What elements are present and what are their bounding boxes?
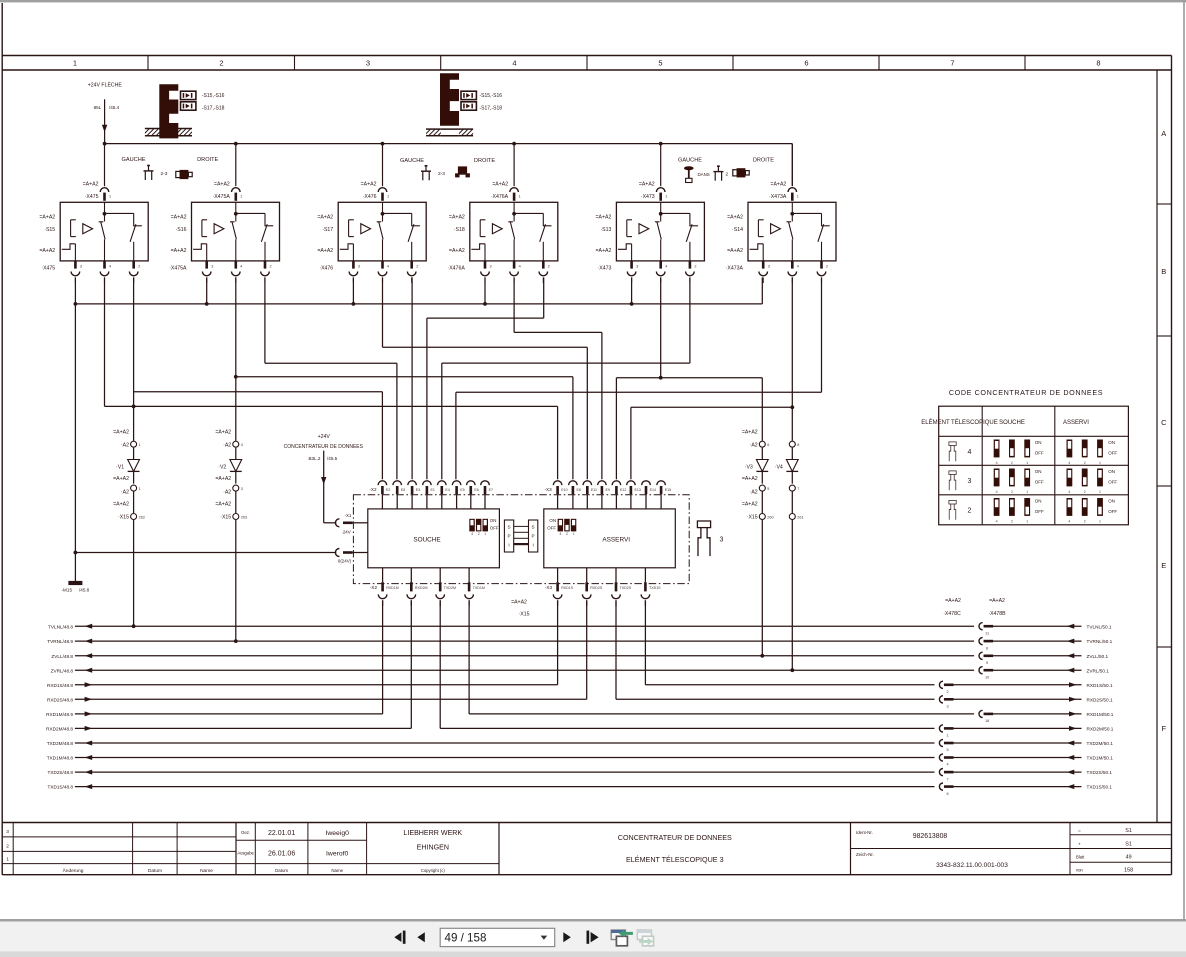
svg-text:Zeich-Nr.: Zeich-Nr. [856,852,874,857]
svg-text:=A+A2: =A+A2 [39,248,55,254]
labels B3L.2 /45.5 [308,456,337,461]
wire b1 pin4 to X3:E10 [105,277,558,479]
svg-text:1: 1 [946,734,948,738]
svg-text:1: 1 [484,532,486,536]
signal line RXD1S left label [47,683,73,688]
svg-text:TXD1S: TXD1S [649,586,661,590]
selector lever icon pair3 [713,166,723,181]
label GAUCHE pair2 [400,158,424,164]
label =A+A2 X476A (bottom left) [447,248,465,271]
frame right line [1171,56,1173,875]
connector X475 pin 1 top [100,188,111,201]
wire RXD1M column to line [382,600,384,714]
label =A+A2 A2 (V2 top) [215,429,231,448]
connector X3 pin RXD2S [582,568,602,606]
svg-text:E5: E5 [460,488,464,492]
svg-text:=: = [1078,829,1081,834]
svg-text:2: 2 [548,264,550,268]
wire bus corner down to X473A [791,144,793,186]
svg-text:9: 9 [986,661,988,665]
wire signal line RXD2M right part [440,727,1081,729]
svg-text:OFF: OFF [547,525,556,530]
svg-text:=A+A2: =A+A2 [113,429,129,435]
svg-text:RXD2S/48.8: RXD2S/48.8 [47,697,73,702]
connector A2 pin 4 (V2 top) [233,441,243,447]
wire +24V vertical drop with arrow [102,99,107,143]
junction dot b6p4 [790,405,794,409]
svg-text:-S15,-S16: -S15,-S16 [202,93,225,99]
svg-text:ON: ON [1035,498,1042,503]
connector -X1 24V [335,513,367,535]
connector X478 pin 8 on TVRNL [974,638,993,651]
wire V2 to X15 [235,492,237,514]
svg-text:E11: E11 [591,488,597,492]
svg-text:1: 1 [387,195,389,199]
svg-text:4: 4 [665,264,667,268]
svg-text:DROITE: DROITE [753,158,774,164]
svg-text:·X473A: ·X473A [769,194,787,200]
svg-text:E12: E12 [620,488,626,492]
label ASSERVI [602,537,630,544]
svg-text:4: 4 [1068,520,1070,524]
signal line RXD1M right arrow [1069,711,1077,716]
svg-text:+: + [1078,842,1081,847]
svg-text:ON: ON [1035,469,1042,474]
svg-text:0(24V): 0(24V) [338,559,352,564]
svg-text:-S15,-S16: -S15,-S16 [480,93,503,99]
label +24V CONCENTRATEUR DE DONNEES [284,434,364,450]
signal line RXD1M left arrow [85,711,93,716]
svg-text:A: A [1161,129,1166,138]
svg-text:GAUCHE: GAUCHE [400,158,424,164]
svg-text:RXD2M/48.8: RXD2M/48.8 [46,727,73,732]
svg-text:·X476: ·X476 [319,265,333,271]
svg-text:+24V: +24V [318,434,331,440]
wire V1 to X15 [133,492,135,514]
svg-text:10: 10 [985,675,989,679]
svg-text:2: 2 [1084,461,1086,465]
wire signal line RXD1S right part [645,684,1081,686]
svg-text:=A+A2: =A+A2 [39,215,55,221]
svg-text:ZVLL/50.1: ZVLL/50.1 [1087,654,1109,659]
signal line TVRNL right label [1087,639,1113,644]
svg-text:3: 3 [358,264,360,268]
svg-text:4: 4 [241,443,243,447]
label =A+A2 X473A (bottom left) [726,248,744,271]
connector X15 pin 263 (V2) [233,514,247,520]
svg-text:1: 1 [1026,520,1028,524]
junction dot V1 branch [132,405,136,409]
svg-text:OFF: OFF [1035,451,1044,456]
svg-text:TVLNL/48.8: TVLNL/48.8 [48,624,73,629]
svg-text:OFF: OFF [1108,451,1117,456]
svg-text:5: 5 [946,748,948,752]
title block LIEBHERR WERK EHINGEN [403,829,462,873]
svg-text:DANS: DANS [698,172,710,177]
junction dot V3 on line [760,654,764,658]
switch S16 box [192,202,280,261]
svg-text:7: 7 [950,59,954,68]
viewer top border strip [0,0,1186,2]
switch S17 box [338,202,426,261]
label =A+A2 -S18 (left) [449,215,465,233]
svg-text:TXD2M/50.1: TXD2M/50.1 [1087,741,1114,746]
svg-text:S1: S1 [1125,841,1132,847]
svg-text:EHINGEN: EHINGEN [417,844,449,852]
wire +24V to X1 with arrow [321,451,336,523]
diode V1 [128,448,140,484]
label GAUCHE pair3 [678,158,702,164]
svg-text:8: 8 [1096,59,1100,68]
svg-text:RXD2S: RXD2S [590,586,603,590]
svg-text:TVLNL/50.1: TVLNL/50.1 [1087,624,1112,629]
connector X478 pin 11 on TVLNL [974,623,993,636]
svg-text:3: 3 [946,705,948,709]
signal line ZVRL right label [1087,668,1110,673]
svg-text:2: 2 [478,532,480,536]
table row 2 ASSERVI dip switches [1067,498,1103,524]
svg-text:=A+A2: =A+A2 [113,502,129,508]
svg-text:·A2: ·A2 [750,442,758,448]
signal line TXD2S right label [1087,770,1113,775]
label -X3 top [545,487,553,492]
title block Gez Ausgabe labels [237,830,254,856]
wire b1 pin2 to X2:E2 [134,277,383,479]
title block labels Anderung Datum Name [63,867,214,874]
label -S17,-S18 (right) [480,105,503,111]
table row 2 SOUCHE dip switches [994,498,1030,524]
table header labels [921,419,1089,426]
junction dot V2 on line [234,639,238,643]
connector X476A pin 1 top [510,188,521,201]
svg-text:E8: E8 [577,488,581,492]
svg-text:8: 8 [986,646,988,650]
wire signal line TXD1S [75,786,1082,788]
svg-text:E14: E14 [650,488,656,492]
svg-text:261: 261 [797,516,803,520]
svg-text:E10: E10 [561,488,567,492]
viewer right edge line [1183,2,1185,920]
svg-text:=A+A2: =A+A2 [596,215,612,221]
junction dot V1 on line [132,624,136,628]
svg-text:1: 1 [139,487,141,491]
wire signal line ZVLL [75,655,1082,657]
switch S15 internal circuit [62,202,142,261]
svg-text:7: 7 [797,487,799,491]
svg-text:=A+A2: =A+A2 [214,181,230,187]
svg-text:=A+A2: =A+A2 [317,248,333,254]
svg-text:=A+A2: =A+A2 [727,215,743,221]
mushroom button icon pair3 [684,166,694,182]
table row 3 SOUCHE ON OFF [1035,469,1044,485]
svg-text:2: 2 [1011,520,1013,524]
connector X2 pin TXD1M [465,568,485,606]
connector X3 pin E14 [642,481,656,509]
svg-text:TXD2S: TXD2S [620,586,632,590]
wire b5p4 branch to X3:E12 [616,378,660,480]
toolbar next-view icon (disabled) [637,930,653,946]
svg-text:1: 1 [109,195,111,199]
svg-text:2: 2 [1011,461,1013,465]
net +24V FLECHE label [88,82,123,89]
svg-text:B: B [1161,267,1166,276]
wire b6 pin4 down to V4 [791,277,793,440]
svg-text:·V4: ·V4 [775,465,783,471]
label =A+A2 -S14 (left) [727,215,743,233]
label =A+A2 X475A (bottom left) [169,248,187,271]
label -V1 [116,465,124,471]
wire b1 pin3 down to M15 node [74,304,76,553]
signal line TVRNL left label [47,639,73,644]
wire b5 pin4 down [660,277,662,377]
wire bus drop to connector X476 pin 1 [382,144,384,187]
signal line TVRNL right arrow [1067,639,1075,644]
svg-text:ELÉMENT TÉLESCOPIQUE: ELÉMENT TÉLESCOPIQUE [921,419,997,426]
connector X473 pins 3 4 2 bottom [627,261,696,283]
svg-text:1: 1 [240,195,242,199]
wire V4 to X15 [791,492,793,514]
connector X15 pin 262 (V1) [131,514,145,520]
wire signal line RXD2S left part [75,698,587,700]
toolbar previous-view icon [611,930,633,946]
svg-text:3: 3 [490,264,492,268]
toolbar page combo box [440,928,555,946]
svg-text:3: 3 [636,264,638,268]
switch S17 internal circuit [340,202,420,261]
wire TXD2S column to line [615,600,617,699]
wire bus drop to connector X473 pin 1 [660,144,662,187]
toolbar prev-page button [417,932,425,942]
dash-dot enclosure X15 [353,495,689,584]
svg-text:·24V: ·24V [341,530,350,535]
label =A+A2 A2 (V3 top) [742,429,758,448]
svg-text:·S15: ·S15 [44,227,55,233]
svg-text:·A2: ·A2 [223,489,231,495]
wire b6p4 branch to X3:E13 [631,407,792,479]
connector A2 pin 7 (V4 mid) [789,485,799,491]
svg-text:=A+A2: =A+A2 [511,600,527,606]
svg-text:·X478B: ·X478B [988,611,1006,617]
wire b4 pin4 to X3:E9 [514,277,602,479]
svg-text:CONCENTRATEUR DE DONNEES: CONCENTRATEUR DE DONNEES [284,444,364,450]
label -X3 bottom [545,585,553,590]
svg-text:-X2: -X2 [369,487,377,492]
svg-text:ZVRL/50.1: ZVRL/50.1 [1087,668,1110,673]
svg-text:8: 8 [797,443,799,447]
signal line TXD2S left label [47,770,73,775]
svg-text:2: 2 [416,264,418,268]
connector X478 pin 2 on RXD1S [935,681,954,694]
connector X478 pin 10 on ZVRL [974,667,993,680]
svg-text:1: 1 [519,195,521,199]
connector A2 pin 1 (V1 mid) [131,485,141,491]
connector X475 pins 3 4 2 bottom [71,261,140,283]
wire +24V top bus [105,143,793,145]
label -V3 [745,465,753,471]
svg-text:=A+A2: =A+A2 [742,502,758,508]
title block dates [268,830,295,858]
svg-text:E9: E9 [606,488,610,492]
svg-text:6: 6 [804,59,808,68]
svg-text:ELÉMENT TÉLESCOPIQUE 3: ELÉMENT TÉLESCOPIQUE 3 [626,855,724,864]
svg-text:TXD2S/48.8: TXD2S/48.8 [47,770,73,775]
svg-text:=A+A2: =A+A2 [449,215,465,221]
table row 4 SOUCHE ON OFF [1035,440,1044,456]
svg-text:F: F [1162,724,1167,733]
svg-text:·X476: ·X476 [363,194,377,200]
viewer bottom page edge strip [0,919,1186,922]
toolbar background [0,922,1186,952]
svg-text:2: 2 [6,844,9,850]
connector -X1 0(24V) [335,549,367,564]
connector X15 pin 260 (V3) [759,514,773,520]
svg-text:=A+A2: =A+A2 [727,248,743,254]
svg-text:ZVLL/48.8: ZVLL/48.8 [51,654,73,659]
ground hatch bar under fleche 2 [419,127,479,136]
svg-text:·X476A: ·X476A [491,194,509,200]
svg-text:1: 1 [1099,490,1101,494]
svg-text:=A+A2: =A+A2 [83,181,99,187]
connector X2 pin E4 [438,481,450,509]
svg-text:2: 2 [219,59,223,68]
svg-text:RXD1S/50.1: RXD1S/50.1 [1087,683,1113,688]
label =A+A2 X15 (V1) [113,502,129,521]
svg-text:E3: E3 [416,488,420,492]
signal line TXD2M right label [1087,741,1114,746]
svg-text:3: 3 [6,829,9,835]
svg-text:3: 3 [241,487,243,491]
svg-text:TXD2M/48.8: TXD2M/48.8 [47,741,74,746]
frame top line [2,55,1171,57]
selector lever icon pair2 [421,166,431,181]
table frame [939,406,1129,525]
svg-text:·X473: ·X473 [598,265,612,271]
svg-text:B3L.2: B3L.2 [308,456,320,461]
label =A+A2 X478B [988,598,1006,617]
connector A2 pin 1 (V1 top) [131,441,141,447]
wire V3 down to signal line [761,520,763,656]
svg-text:4: 4 [946,763,948,767]
table row 2 SOUCHE ON OFF [1035,498,1044,514]
connector X3 pin RXD1S [553,568,573,606]
svg-text:Datum: Datum [148,868,162,874]
connector X2 pin TXD2M [436,568,456,606]
column dividers [148,56,1025,71]
wire b5 pin3 drop [631,277,633,304]
svg-text:E: E [1161,561,1166,570]
svg-text:OFF: OFF [490,525,499,530]
svg-text:E6: E6 [474,488,478,492]
svg-text:=A+A2: =A+A2 [945,598,961,604]
svg-text:·X473A: ·X473A [726,265,744,271]
svg-text:RXD1S: RXD1S [561,586,574,590]
svg-text:2: 2 [946,690,948,694]
svg-text:Datum: Datum [275,868,288,873]
title block frame [2,823,1171,875]
svg-text:·X478C: ·X478C [943,611,961,617]
svg-text:6: 6 [767,443,769,447]
SPI link box left [504,520,513,552]
label =A+A2 X473A (top) [769,181,787,200]
svg-text:·A2: ·A2 [750,489,758,495]
signal line TXD1M left arrow [85,755,93,760]
svg-text:·X475: ·X475 [41,265,55,271]
svg-text:=A+A2: =A+A2 [215,476,231,482]
connector X478 pin 4 on TXD1M [935,754,954,767]
connector X3 pin E9 [598,481,610,509]
svg-text:1: 1 [1099,520,1101,524]
signal line ZVRL right arrow [1067,668,1075,673]
toolbar first-page button [394,931,405,944]
svg-text:6: 6 [946,792,948,796]
svg-text:GAUCHE: GAUCHE [678,158,702,164]
svg-text:TVRNL/48.9: TVRNL/48.9 [47,639,73,644]
svg-text:3: 3 [366,59,370,68]
svg-text:·X473: ·X473 [641,194,655,200]
boom profile symbol 1 (fleche S15-S18 left) [159,84,178,138]
svg-text:=A+A2: =A+A2 [171,248,187,254]
svg-text:2: 2 [968,507,972,514]
svg-text:RXD1M/48.9: RXD1M/48.9 [46,712,73,717]
label =A+A2 -S15 (left) [39,215,55,233]
svg-text:4: 4 [519,264,521,268]
signal line TXD1S right label [1087,785,1113,790]
wire signal line RXD2M left part [75,727,411,729]
connector X473A pin 1 top [788,188,799,201]
svg-text:E7: E7 [489,488,493,492]
svg-text:·X15: ·X15 [118,515,129,521]
label =A+A2 -S16 (left) [171,215,187,233]
wire b5p4 branch to V3 [661,378,763,441]
label DROITE pair1 [197,157,218,163]
svg-text:4: 4 [1068,461,1070,465]
svg-text:5: 5 [658,59,662,68]
svg-text:LIEBHERR WERK: LIEBHERR WERK [403,829,462,837]
svg-text:·S18: ·S18 [454,227,465,233]
label =A+A2 X15 (V2) [215,502,231,521]
connector X478 pin 5 on TXD2M [935,739,954,752]
label =A+A2 X475A (top) [212,181,230,200]
svg-text:3: 3 [80,264,82,268]
signal line TVRNL left arrow [85,639,93,644]
SPI bus lines [514,526,529,544]
connector X478 pin 9 on ZVLL [974,652,993,665]
diode V2 [230,448,242,484]
svg-text:OFF: OFF [1108,480,1117,485]
svg-text:TXD2M: TXD2M [444,586,456,590]
signal line RXD2S left label [47,697,73,702]
label =A+A2 X15 under unit [511,600,530,618]
svg-text:·S17: ·S17 [322,227,333,233]
connector X3 pin E11 [583,481,597,509]
svg-text:DROITE: DROITE [197,157,218,163]
column numbers 1-8 [73,59,1101,68]
svg-text:TXD1M/48.8: TXD1M/48.8 [47,756,74,761]
connector X476A pins 3 4 2 bottom [481,261,550,283]
proximity switch box -S17,-S18 (left) [181,102,196,110]
connector X478 pin 3 on RXD2S [935,696,954,709]
signal line TXD2S left arrow [85,770,93,775]
svg-text:1: 1 [6,857,9,863]
connector X3 pin E10 [553,481,567,509]
svg-text:·X15: ·X15 [747,515,758,521]
signal line TXD2S right arrow [1067,770,1075,775]
component icon droite pair3 [733,168,749,177]
svg-text:3343-832.11.00.001-003: 3343-832.11.00.001-003 [936,862,1008,869]
svg-text:2-3: 2-3 [438,171,445,177]
svg-text:·X475A: ·X475A [169,265,187,271]
svg-text:2: 2 [566,532,568,536]
